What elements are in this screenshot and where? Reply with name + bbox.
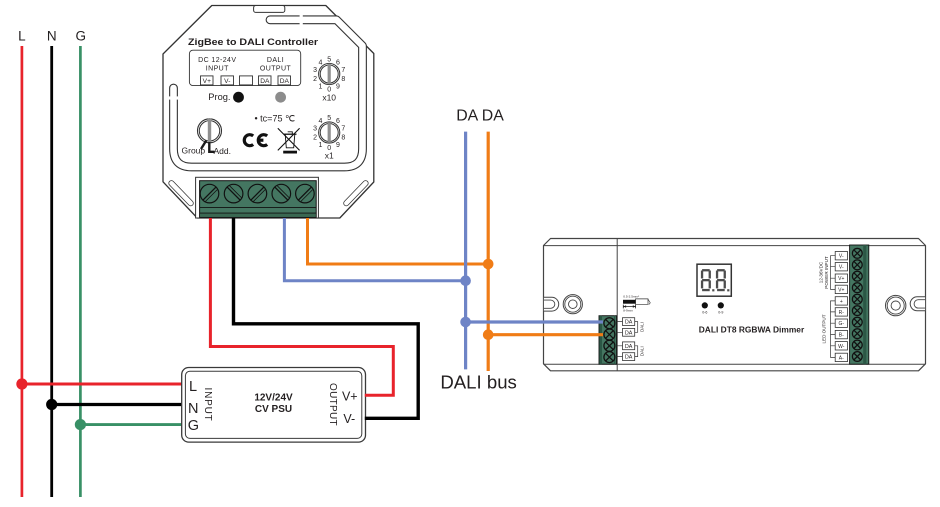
svg-text:5: 5 (327, 57, 331, 64)
terminal screw 2 (224, 184, 243, 203)
svg-text:3: 3 (313, 125, 317, 132)
left keyhole slot (544, 297, 559, 311)
svg-text:7: 7 (341, 67, 345, 74)
svg-text:DALI: DALI (640, 346, 645, 356)
svg-text:5: 5 (327, 115, 331, 122)
power/output pin boxes (831, 252, 848, 362)
power terminal screws (852, 248, 862, 361)
svg-text:G-: G- (839, 321, 845, 327)
right keyhole slot (910, 297, 925, 311)
wire N mains vertical (50, 46, 53, 497)
svg-text:V+: V+ (203, 78, 211, 85)
DALI input terminal block (599, 316, 617, 365)
svg-text:DA: DA (280, 78, 290, 85)
svg-text:8: 8 (341, 76, 345, 83)
svg-text:N: N (188, 401, 198, 417)
svg-text:0-9: 0-9 (718, 310, 723, 314)
wire DALI bus blue vertical (464, 132, 467, 370)
svg-text:V+: V+ (838, 276, 844, 282)
svg-text:B-: B- (839, 333, 844, 339)
svg-text:4: 4 (319, 60, 323, 67)
controller mounting slot bottom-right (346, 183, 365, 203)
wire L mains vertical (21, 46, 24, 497)
svg-text:12V/24V: 12V/24V (254, 393, 293, 404)
svg-text:Prog.: Prog. (208, 92, 230, 102)
svg-text:DA: DA (260, 78, 270, 85)
svg-text:V-: V- (343, 412, 355, 426)
junction blue lower (460, 317, 471, 328)
junction orange lower (483, 329, 494, 340)
wire L to PSU input (22, 383, 183, 386)
Prog button (233, 92, 244, 103)
svg-text:POWER INPUT: POWER INPUT (824, 256, 829, 289)
wire gauge icon (623, 294, 650, 312)
svg-text:9: 9 (336, 84, 340, 91)
junction orange upper (483, 259, 494, 270)
svg-text:x1: x1 (325, 151, 334, 161)
wire G to PSU input (80, 423, 183, 426)
svg-text:DA: DA (625, 344, 633, 350)
PSU body (182, 368, 366, 443)
svg-text:x10: x10 (322, 93, 336, 103)
terminal screw 1 (200, 184, 219, 203)
svg-text:Add.: Add. (214, 146, 232, 156)
svg-text:N: N (47, 29, 57, 44)
left screw hole (563, 295, 582, 314)
controller mounting slot bottom-left (171, 183, 190, 203)
svg-text:6: 6 (336, 118, 340, 125)
pin V- (221, 76, 234, 85)
svg-text:12-36VDC: 12-36VDC (819, 261, 824, 283)
dimmer U2 DALI DT8 RGBWA (544, 239, 926, 371)
terminal screw 4 (272, 184, 291, 203)
wire V- black controller to PSU (234, 218, 419, 418)
svg-text:V-: V- (839, 254, 844, 260)
pin DA (278, 76, 291, 85)
svg-text:L: L (189, 379, 197, 395)
svg-text:V-: V- (224, 78, 230, 85)
svg-text:6: 6 (336, 60, 340, 67)
svg-text:V+: V+ (342, 390, 358, 404)
svg-text:CV PSU: CV PSU (255, 404, 292, 415)
svg-text:DC 12-24V: DC 12-24V (198, 57, 236, 64)
svg-text:3: 3 (313, 67, 317, 74)
svg-text:8-9mm: 8-9mm (623, 308, 633, 312)
pin blank (240, 76, 253, 85)
dimmer rim lines (544, 246, 926, 365)
rotary dial x1 (313, 115, 345, 160)
junction L (16, 378, 27, 389)
svg-text:V+: V+ (838, 287, 844, 293)
junction G (75, 419, 86, 430)
pin V+ (201, 76, 214, 85)
CE mark (244, 135, 267, 146)
svg-text:8: 8 (341, 135, 345, 142)
groove notch top (300, 14, 303, 26)
controller body octagon (163, 6, 374, 219)
wire N to PSU input (52, 403, 183, 406)
Group Add dial (182, 119, 232, 156)
svg-text:L: L (18, 29, 26, 44)
WEEE bin icon (278, 128, 300, 153)
wire orange bus to dimmer (488, 333, 603, 336)
wire blue bus to dimmer (466, 320, 603, 323)
dimmer body (544, 239, 926, 371)
svg-text:2: 2 (313, 76, 317, 83)
controller terminal box (196, 177, 319, 218)
controller top tab (254, 6, 285, 13)
svg-text:Group: Group (182, 146, 206, 156)
svg-text:1: 1 (319, 84, 323, 91)
wire G mains vertical (79, 46, 82, 497)
svg-text:R-: R- (839, 310, 845, 316)
svg-text:LED OUTPUT: LED OUTPUT (822, 314, 827, 343)
power terminal block (850, 245, 869, 364)
svg-text:ZigBee to DALI Controller: ZigBee to DALI Controller (188, 37, 319, 47)
dimmer left separator (616, 239, 618, 371)
controller terminal block (200, 181, 317, 218)
svg-text:2: 2 (313, 135, 317, 142)
svg-text:DA: DA (625, 330, 633, 336)
right screw hole (886, 295, 906, 315)
pin DA (259, 76, 272, 85)
svg-text:G: G (188, 418, 199, 434)
wire DA blue controller to bus (284, 218, 465, 281)
7-segment display (697, 264, 731, 296)
svg-text:W-: W- (838, 344, 845, 350)
svg-text:1: 1 (319, 142, 323, 149)
terminal screw 3 (248, 184, 267, 203)
svg-text:A-: A- (839, 355, 844, 361)
svg-text:DA: DA (625, 355, 633, 361)
svg-text:9: 9 (336, 142, 340, 149)
svg-text:0-6: 0-6 (702, 310, 707, 314)
svg-text:OUTPUT: OUTPUT (260, 66, 291, 73)
svg-text:4: 4 (319, 118, 323, 125)
junction blue upper (460, 275, 471, 286)
junction N (46, 399, 57, 410)
svg-text:DALI DT8 RGBWA Dimmer: DALI DT8 RGBWA Dimmer (699, 325, 805, 335)
controller face groove (174, 20, 363, 167)
svg-text:INPUT: INPUT (202, 388, 213, 422)
svg-text:DALI bus: DALI bus (440, 373, 517, 393)
svg-text:OUTPUT: OUTPUT (327, 383, 338, 426)
svg-text:DA: DA (625, 320, 633, 326)
rotary dial x10 (313, 57, 345, 103)
wire DA orange controller to bus (308, 218, 489, 264)
groove notch left (168, 96, 180, 99)
svg-text:G: G (75, 29, 86, 44)
svg-text:0.5-2.5mm²: 0.5-2.5mm² (623, 294, 639, 298)
wire DALI bus orange vertical (487, 132, 490, 371)
button 0-6 (702, 302, 708, 308)
svg-text:INPUT: INPUT (206, 66, 229, 73)
svg-text:DALI: DALI (267, 57, 284, 64)
button 0-9 (718, 302, 724, 308)
svg-text:DA DA: DA DA (456, 107, 504, 124)
wire V+ red controller to PSU (210, 218, 393, 395)
svg-text:7: 7 (341, 125, 345, 132)
terminal screw 5 (296, 184, 315, 203)
svg-text:V-: V- (839, 265, 844, 271)
svg-text:+: + (840, 299, 843, 305)
LED indicator (275, 92, 286, 103)
svg-text:DALI: DALI (640, 322, 645, 332)
svg-text:• tc=75 ℃: • tc=75 ℃ (255, 114, 296, 124)
DALI terminal screws (604, 318, 615, 363)
DA pin boxes (617, 318, 638, 361)
controller label box (189, 50, 300, 85)
controller U1 ZigBee to DALI (163, 6, 374, 219)
